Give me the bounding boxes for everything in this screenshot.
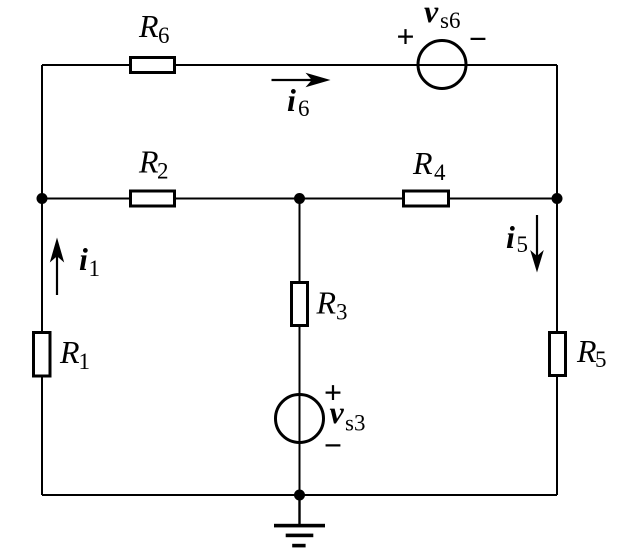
wire top: [42, 64, 557, 66]
current arrow i5: [506, 215, 544, 273]
resistor R3: [292, 283, 348, 326]
svg-text:R: R: [138, 144, 159, 180]
wire middle: [42, 198, 557, 200]
svg-text:v: v: [330, 394, 345, 430]
wire left: [41, 65, 43, 495]
wire center vertical: [299, 199, 301, 496]
resistor R4: [404, 145, 449, 206]
node left (junction dot): [37, 193, 48, 204]
svg-text:s6: s6: [440, 8, 460, 33]
svg-text:4: 4: [434, 160, 446, 185]
svg-text:R: R: [316, 285, 337, 321]
wire right: [556, 65, 558, 495]
svg-text:−: −: [324, 427, 342, 463]
svg-text:R: R: [138, 8, 159, 44]
svg-text:6: 6: [158, 23, 170, 48]
resistor R5: [550, 333, 607, 376]
svg-text:i: i: [79, 241, 88, 277]
node bottom (junction dot): [294, 490, 305, 501]
svg-text:i: i: [506, 219, 515, 255]
current arrow i6: [272, 73, 331, 121]
svg-text:v: v: [424, 0, 439, 29]
resistor R1: [34, 333, 91, 377]
svg-text:1: 1: [79, 349, 91, 374]
svg-text:5: 5: [517, 232, 529, 257]
svg-text:2: 2: [157, 159, 169, 184]
svg-text:−: −: [469, 21, 487, 57]
svg-text:R: R: [412, 145, 433, 181]
svg-text:6: 6: [298, 96, 310, 121]
svg-text:R: R: [576, 333, 597, 369]
resistor R6: [131, 8, 175, 73]
svg-text:1: 1: [89, 256, 101, 281]
svg-text:+: +: [396, 18, 414, 54]
node right (junction dot): [552, 193, 563, 204]
ground: [274, 495, 325, 547]
svg-text:5: 5: [595, 347, 607, 372]
node center (junction dot): [294, 193, 305, 204]
resistor R2: [131, 144, 175, 207]
svg-text:s3: s3: [345, 411, 365, 436]
svg-text:R: R: [59, 334, 80, 370]
voltage source vs6: [396, 0, 487, 89]
svg-text:i: i: [287, 82, 296, 118]
current arrow i1: [50, 238, 100, 296]
wire bottom: [42, 494, 557, 496]
voltage source vs3: [276, 374, 366, 463]
svg-text:3: 3: [336, 300, 348, 325]
